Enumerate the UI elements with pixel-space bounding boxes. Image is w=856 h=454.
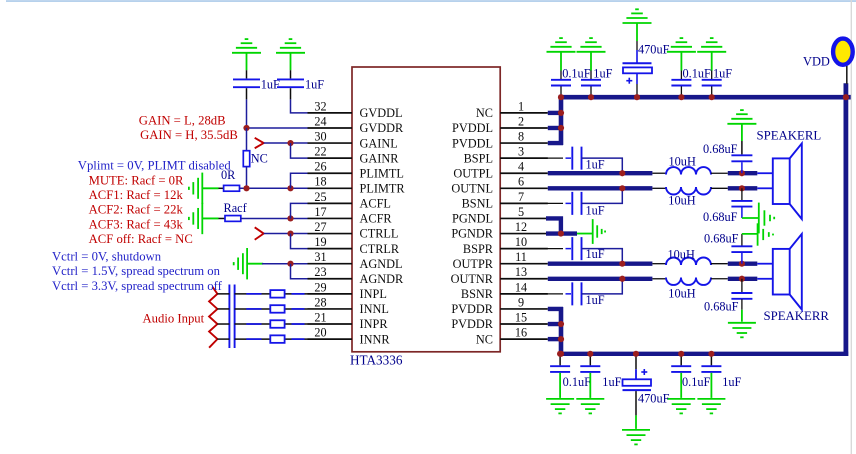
wire pin 16 thick stub (548, 337, 563, 341)
svg-text:PVDDL: PVDDL (452, 136, 493, 150)
speaker SPEAKERL (773, 158, 790, 204)
svg-text:BSNL: BSNL (462, 197, 493, 211)
capacitor C5 0.1uF with ground (667, 38, 696, 52)
resistor input row pin 28 (270, 305, 284, 313)
wire left vertical bus top (559, 97, 564, 145)
wire pin 30 stub left (308, 142, 353, 144)
polarity mark C12 (641, 371, 647, 373)
node OUTNL speaker junction (739, 185, 745, 191)
svg-text:GAIN = H, 35.5dB: GAIN = H, 35.5dB (140, 128, 238, 142)
svg-text:31: 31 (314, 250, 326, 264)
op-amp U1 HTA3336 IC body (352, 67, 500, 352)
wire OUTNR trace with inductor 10uH (548, 277, 653, 281)
wire AGNDR tie (291, 264, 308, 279)
wire pin 1 stub right (500, 112, 548, 114)
wire VDD right vertical bus (844, 83, 849, 356)
svg-text:10uH: 10uH (668, 247, 695, 261)
svg-text:26: 26 (314, 160, 326, 174)
ground right of C-R1 (758, 223, 773, 245)
svg-text:Audio Input: Audio Input (143, 311, 205, 325)
node C12 junction (633, 351, 639, 357)
svg-text:PVDDR: PVDDR (451, 302, 493, 316)
wire pin 2 thick stub (548, 126, 563, 130)
capacitor C1 1uF stem (246, 53, 248, 70)
wire pin 18 stub left (308, 187, 353, 189)
ground for R 0R (189, 173, 202, 204)
svg-text:8: 8 (518, 129, 524, 143)
svg-text:PGNDL: PGNDL (452, 212, 493, 226)
wire ACFL tie (291, 203, 308, 218)
capacitor C4 1uF with ground (577, 38, 606, 52)
svg-text:OUTNR: OUTNR (451, 272, 494, 286)
svg-text:ACF2: Racf = 22k: ACF2: Racf = 22k (89, 203, 184, 217)
wire pin 22 stub left (308, 157, 353, 159)
wire ground to 0R resistor (202, 187, 218, 189)
resistor input row pin 21 (270, 320, 284, 328)
wire PGNDR thick pin 12 (546, 231, 577, 235)
capacitor C2 1uF (277, 79, 304, 87)
capacitor C12 470uF electrolytic (635, 354, 637, 370)
svg-text:27: 27 (314, 220, 326, 234)
wire pin 7 stub right (500, 202, 548, 204)
svg-text:7: 7 (518, 190, 524, 204)
resistor Racf (225, 216, 241, 222)
svg-text:3: 3 (518, 145, 524, 159)
no-connect marker CTRL (255, 227, 264, 239)
ground for Racf (189, 203, 202, 234)
capacitor C1 1uF (233, 79, 260, 87)
resistor 0R (224, 185, 240, 191)
ground below C-R2 (728, 323, 756, 338)
svg-text:INPR: INPR (360, 317, 389, 331)
svg-text:11: 11 (515, 250, 527, 264)
svg-text:1uF: 1uF (586, 204, 605, 218)
page right border line (850, 0, 852, 454)
svg-text:1: 1 (518, 99, 524, 113)
wire PGNDL thick stub pin 5 (546, 218, 561, 233)
svg-text:18: 18 (314, 175, 326, 189)
node PLIMT-GVDD junction (243, 185, 249, 191)
svg-text:23: 23 (314, 265, 326, 279)
wire pin 26 stub left (308, 172, 353, 174)
no-connect marker GAIN (255, 138, 264, 148)
wire pin 2 stub right (500, 127, 548, 129)
svg-text:10: 10 (515, 235, 527, 249)
wire CTRL chevron to pin 27 (264, 233, 308, 235)
svg-text:BSPR: BSPR (463, 242, 494, 256)
wire pin 20 stub left (308, 338, 353, 340)
svg-text:Vplimt = 0V, PLIMT disabled: Vplimt = 0V, PLIMT disabled (78, 159, 232, 173)
wire ground to Racf (202, 217, 218, 219)
svg-text:INPL: INPL (360, 287, 387, 301)
wire pin 10 stub right (500, 248, 548, 250)
svg-text:4: 4 (518, 160, 524, 174)
wire pin 4 stub right (500, 172, 548, 174)
svg-text:10uH: 10uH (668, 194, 695, 208)
svg-text:14: 14 (515, 280, 527, 294)
svg-text:0.1uF: 0.1uF (562, 66, 591, 80)
svg-text:ACFR: ACFR (360, 212, 393, 226)
svg-text:5: 5 (518, 205, 524, 219)
wire pin 8 stub right (500, 142, 548, 144)
wire pin 12 stub right (500, 233, 548, 235)
wire pin 1 thick stub (548, 111, 563, 115)
capacitor C-BSPR 1uF (500, 248, 563, 250)
wire pin 11 stub right (500, 263, 548, 265)
wire 0R to PLIMT node (240, 187, 308, 189)
svg-text:17: 17 (314, 205, 326, 219)
svg-text:ACF off: Racf = NC: ACF off: Racf = NC (89, 232, 193, 246)
wire pin 23 stub left (308, 278, 353, 280)
wire C2 to pin 32 (290, 88, 292, 99)
svg-text:1uF: 1uF (593, 66, 612, 80)
ground PGND (593, 219, 605, 244)
svg-text:6: 6 (518, 175, 524, 189)
svg-text:VDD: VDD (803, 54, 830, 68)
svg-text:22: 22 (314, 145, 326, 159)
svg-text:PVDDL: PVDDL (452, 121, 493, 135)
svg-text:OUTPL: OUTPL (453, 166, 493, 180)
svg-text:PGNDR: PGNDR (451, 227, 493, 241)
svg-text:GAIN = L, 28dB: GAIN = L, 28dB (139, 114, 226, 128)
svg-text:INNL: INNL (360, 302, 389, 316)
wire pin 15 stub right (500, 323, 548, 325)
svg-text:0.68uF: 0.68uF (703, 210, 738, 224)
wire pin 6 stub right (500, 187, 548, 189)
wire pin 32 stub left (308, 112, 353, 114)
svg-text:GAINR: GAINR (360, 151, 400, 165)
svg-text:PLIMTL: PLIMTL (360, 166, 404, 180)
wire VDD circle to bus (846, 66, 848, 84)
svg-text:15: 15 (515, 310, 527, 324)
svg-text:BSNR: BSNR (461, 287, 494, 301)
node top bus junctions (558, 110, 564, 116)
wire CTRLR tie (291, 234, 308, 249)
svg-text:CTRLL: CTRLL (360, 227, 399, 241)
wire pin 9 stub right (500, 308, 548, 310)
svg-text:25: 25 (314, 190, 326, 204)
wire input row pin 29 (217, 293, 229, 295)
svg-text:21: 21 (314, 310, 326, 324)
svg-text:INNR: INNR (360, 332, 391, 346)
ground above C-L1 (727, 110, 756, 124)
svg-text:BSPL: BSPL (464, 151, 493, 165)
svg-text:13: 13 (515, 265, 527, 279)
wire pin 16 stub right (500, 338, 548, 340)
node ACFR junction (287, 215, 293, 221)
ground for C1 (232, 39, 261, 53)
node PLIMTR junction (287, 185, 293, 191)
svg-text:HTA3336: HTA3336 (350, 353, 403, 368)
svg-text:1uF: 1uF (586, 293, 605, 307)
wire pin 27 stub left (308, 233, 353, 235)
wire pin 24 stub left (308, 127, 353, 129)
node bottom bus junctions (558, 321, 564, 327)
svg-text:470uF: 470uF (638, 391, 670, 405)
wire pin 13 stub right (500, 278, 548, 280)
capacitor C7 470uF electrolytic (636, 23, 638, 41)
wire pin 9 thick stub (548, 307, 563, 311)
svg-text:29: 29 (314, 280, 326, 294)
wire left vertical bus bottom (559, 307, 564, 354)
resistor input row pin 20 (270, 335, 284, 343)
node GVDDR junction (243, 125, 249, 131)
svg-text:0.68uF: 0.68uF (703, 142, 738, 156)
node OUTPL speaker junction (739, 170, 745, 176)
node OUTNR speaker junction (739, 276, 745, 282)
svg-text:16: 16 (515, 326, 527, 340)
svg-text:32: 32 (314, 99, 326, 113)
wire pin 31 stub left (308, 263, 353, 265)
svg-text:2: 2 (518, 114, 524, 128)
wire AGND ground to pin 31 (247, 263, 263, 265)
wire pin 25 stub left (308, 202, 353, 204)
wire PGND green (577, 233, 593, 235)
node PGND junction (558, 230, 564, 236)
wire C1 to GVDDR node (246, 88, 248, 99)
ground for C2 (276, 39, 305, 53)
svg-text:SPEAKERL: SPEAKERL (757, 129, 822, 143)
polarity mark C7 (626, 80, 632, 82)
resistor input row pin 29 (270, 290, 284, 298)
svg-text:9: 9 (518, 295, 524, 309)
wire GAIN chevron to pin 30 (264, 142, 308, 144)
page top border line (6, 0, 856, 2)
capacitor C6 1uF with ground (697, 38, 726, 52)
svg-text:SPEAKERR: SPEAKERR (764, 309, 830, 323)
resistor R-NC vertical (246, 128, 248, 151)
svg-text:OUTPR: OUTPR (453, 257, 494, 271)
ground above C7 (623, 9, 652, 23)
svg-text:0.1uF: 0.1uF (563, 375, 592, 389)
node CTRLL junction (287, 230, 293, 236)
audio input coupling capacitors plates (228, 285, 230, 349)
svg-text:0.1uF: 0.1uF (683, 66, 712, 80)
svg-text:0.1uF: 0.1uF (682, 375, 711, 389)
svg-text:GVDDR: GVDDR (360, 121, 405, 135)
svg-text:NC: NC (476, 332, 493, 346)
svg-text:1uF: 1uF (722, 375, 741, 389)
wire pin 28 stub left (308, 308, 353, 310)
wire input row pin 21 (217, 323, 229, 325)
wire VDD top bus (559, 95, 851, 100)
svg-text:1uF: 1uF (305, 78, 324, 92)
capacitor C-BSNL 1uF (500, 202, 563, 204)
svg-text:OUTNL: OUTNL (451, 182, 493, 196)
svg-text:GAINL: GAINL (360, 136, 398, 150)
svg-text:1uF: 1uF (602, 375, 621, 389)
svg-text:10uH: 10uH (669, 155, 696, 169)
capacitor C-BSNR 1uF (500, 293, 563, 295)
node VDD corner junction (843, 94, 849, 100)
svg-text:0.68uF: 0.68uF (704, 232, 739, 246)
svg-text:20: 20 (314, 326, 326, 340)
svg-text:0.68uF: 0.68uF (704, 300, 739, 314)
wire PLIMTL tie (291, 173, 308, 188)
capacitor C-R2 0.68uF (741, 279, 743, 292)
capacitor C-R1 0.68uF (741, 234, 743, 246)
wire pin 5 stub right (500, 217, 548, 219)
wire pin 29 stub left (308, 293, 353, 295)
svg-text:Vctrl = 1.5V, spread spectrum: Vctrl = 1.5V, spread spectrum on (52, 264, 221, 278)
wire input row pin 20 (217, 338, 229, 340)
node C7 junction (634, 94, 640, 100)
wire input row pin 28 (217, 308, 229, 310)
capacitor C-L1 0.68uF (741, 124, 743, 141)
capacitor C-BSPL 1uF (500, 157, 563, 159)
svg-text:1uF: 1uF (713, 66, 732, 80)
node OUTPR speaker junction (739, 261, 745, 267)
svg-text:1uF: 1uF (586, 247, 605, 261)
capacitor C3 0.1uF with ground (547, 38, 576, 52)
ground right of C-L2 (759, 203, 774, 234)
node AGNDL junction (287, 261, 293, 267)
svg-text:NC: NC (476, 106, 493, 120)
capacitor C8 0.1uF with ground (559, 354, 561, 366)
svg-text:10uH: 10uH (668, 287, 695, 301)
wire PVDD bottom bus (559, 352, 849, 356)
wire pin 8 thick stub (548, 141, 563, 145)
capacitor C-L2 0.68uF (741, 188, 743, 200)
wire pin 17 stub left (308, 217, 353, 219)
wire pin 19 stub left (308, 248, 353, 250)
svg-text:470uF: 470uF (638, 43, 670, 57)
capacitor C9 1uF with ground (589, 354, 591, 366)
svg-text:ACF1: Racf = 12k: ACF1: Racf = 12k (89, 188, 184, 202)
wire OUTNL trace with inductor 10uH (548, 186, 653, 190)
wire OUTPR trace with inductor 10uH (548, 262, 653, 266)
wire Racf to pin 17 (241, 217, 308, 219)
svg-text:12: 12 (515, 220, 527, 234)
audio input port chevrons (209, 287, 217, 348)
capacitor C11 1uF with ground (710, 354, 712, 366)
svg-text:1uF: 1uF (586, 158, 605, 172)
svg-text:Vctrl = 0V, shutdown: Vctrl = 0V, shutdown (52, 249, 162, 263)
wire GAINL to GAINR tie (291, 143, 308, 158)
wire pin 14 stub right (500, 293, 548, 295)
speaker SPEAKERR (773, 249, 790, 295)
svg-text:AGNDR: AGNDR (360, 272, 405, 286)
svg-text:28: 28 (314, 295, 326, 309)
wire pin 15 thick stub (548, 322, 563, 326)
svg-text:30: 30 (314, 129, 326, 143)
svg-text:Racf: Racf (224, 201, 248, 215)
wire pin 21 stub left (308, 323, 353, 325)
ground for AGND (234, 248, 247, 279)
power port VDD (833, 39, 853, 65)
svg-text:GVDDL: GVDDL (360, 106, 403, 120)
svg-text:Vctrl = 3.3V, spread spectrum: Vctrl = 3.3V, spread spectrum off (52, 279, 223, 293)
wire pin 3 stub right (500, 157, 548, 159)
capacitor C2 1uF stem (290, 53, 292, 70)
svg-text:AGNDL: AGNDL (360, 257, 403, 271)
wire OUTPL trace with inductor 10uH (548, 171, 653, 175)
ground below C12 (622, 430, 650, 445)
svg-text:MUTE: Racf = 0R: MUTE: Racf = 0R (89, 173, 184, 187)
svg-text:24: 24 (314, 114, 326, 128)
svg-text:ACF3: Racf = 43k: ACF3: Racf = 43k (89, 218, 184, 232)
svg-text:PLIMTR: PLIMTR (360, 182, 406, 196)
svg-text:ACFL: ACFL (360, 197, 391, 211)
svg-text:PVDDR: PVDDR (451, 317, 493, 331)
svg-text:CTRLR: CTRLR (360, 242, 400, 256)
svg-text:NC: NC (251, 151, 268, 165)
wire GVDDR node to pin 24 (247, 127, 308, 129)
svg-text:19: 19 (314, 235, 326, 249)
node GAINL junction (287, 140, 293, 146)
capacitor C10 0.1uF with ground (680, 354, 682, 366)
